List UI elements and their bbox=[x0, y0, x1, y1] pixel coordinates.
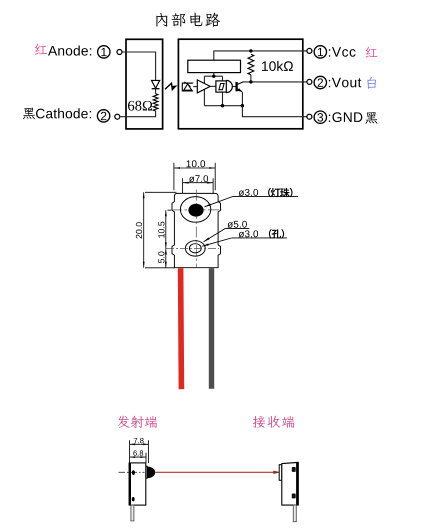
label dia3.0 hole bbox=[202, 238, 287, 246]
emitter lead hole top bbox=[132, 470, 135, 475]
node Anode label 红 bbox=[35, 44, 47, 55]
lamp circle dia7 bbox=[180, 197, 210, 223]
receiver hole top bbox=[292, 467, 296, 472]
sensor body outline bbox=[172, 193, 221, 267]
hole inner circle dia3 bbox=[189, 244, 201, 253]
wire Vcc top rail bbox=[214, 51, 307, 60]
black lead wire bbox=[209, 268, 214, 389]
net label Vcc 红 bbox=[366, 47, 378, 58]
receiver pin bbox=[293, 505, 296, 522]
emitter lead hole bottom bbox=[132, 497, 135, 501]
dimension dia 7.0 bbox=[189, 175, 208, 182]
emitter dome ledge bbox=[146, 466, 147, 478]
dimension 10.5 bbox=[158, 222, 164, 238]
top rail amp bbox=[204, 75, 222, 77]
light beam red line bbox=[155, 471, 274, 473]
terminal cathode bbox=[115, 114, 120, 119]
schmitt trigger U2 bbox=[226, 80, 232, 92]
receiver window flange bbox=[279, 465, 282, 481]
hysteresis symbol bbox=[219, 84, 224, 90]
net label GND 黑 bbox=[365, 112, 377, 124]
emitter body thick left edge bbox=[129, 463, 131, 505]
net label Vout 白 bbox=[367, 77, 376, 89]
wire resistor to cathode bbox=[120, 111, 156, 117]
dimension 7.8 bbox=[134, 438, 144, 443]
pin 2 cathode circled number bbox=[97, 110, 109, 122]
label dia3.0 lamp bead bbox=[205, 197, 299, 207]
lamp bead dia3 bbox=[188, 204, 203, 217]
junction schmitt bottom bbox=[221, 104, 224, 107]
resistor R1 68 ohm bbox=[153, 94, 158, 111]
dimension 6.8 bbox=[133, 450, 143, 455]
pin 2 Vout bbox=[314, 76, 326, 88]
LED D1 bbox=[152, 80, 160, 88]
node Cathode text bbox=[36, 108, 91, 118]
receiver body thick right edge bbox=[296, 462, 299, 505]
schmitt supply vertical bbox=[222, 76, 224, 80]
transistor Q1 bbox=[235, 82, 237, 91]
wire LED to resistor bbox=[155, 89, 157, 94]
hole outer circle dia5 bbox=[185, 241, 205, 256]
centerline hole bbox=[166, 247, 219, 249]
centerline lamp horizontal bbox=[171, 209, 222, 211]
label dia5.0 bbox=[204, 228, 250, 241]
wire schmitt to base bbox=[232, 86, 236, 88]
emitter block outline bbox=[126, 39, 163, 129]
terminal Vcc bbox=[307, 48, 312, 53]
receiver body bbox=[282, 462, 298, 505]
dimension 10.0 bbox=[187, 160, 206, 167]
label emitter end 发射端 bbox=[118, 416, 157, 428]
emitter centerline bbox=[119, 471, 145, 473]
junction chip bottom bbox=[213, 73, 215, 77]
junction resistor top bbox=[249, 49, 252, 52]
op-amp A1 bbox=[197, 80, 210, 93]
light emission arrow bbox=[165, 83, 175, 90]
terminal GND bbox=[307, 114, 312, 119]
node Anode text bbox=[48, 45, 91, 55]
wire gnd bbox=[242, 106, 307, 117]
label receiver end 接收端 bbox=[253, 416, 294, 428]
chip block U1 bbox=[188, 60, 241, 72]
pin 1 anode circled number bbox=[98, 46, 110, 58]
dimension 20.0 bbox=[136, 222, 142, 238]
title: internal circuit 内部电路 bbox=[156, 13, 220, 27]
resistor R2 10k bbox=[248, 54, 254, 75]
photodiode PD1 bbox=[182, 83, 193, 91]
terminal Vout bbox=[307, 79, 312, 84]
detector block outline bbox=[178, 39, 302, 129]
dimension 5.0 bbox=[158, 252, 164, 264]
pin 1 Vcc bbox=[314, 46, 326, 58]
emitter body bbox=[129, 463, 146, 505]
red lead wire bbox=[178, 268, 184, 389]
wire anode to LED bbox=[122, 52, 156, 81]
wire Vout bbox=[243, 81, 307, 83]
centerline vertical bbox=[195, 190, 197, 268]
junction resistor bottom bbox=[249, 80, 252, 83]
terminal anode bbox=[117, 50, 122, 55]
bottom rail bbox=[204, 105, 242, 107]
emitter lamp dome bbox=[147, 467, 155, 479]
node Cathode label 黑 bbox=[23, 108, 35, 119]
wire photodiode to amp bbox=[193, 86, 197, 88]
supply rail left vertical bbox=[203, 76, 205, 106]
wire amp to schmitt bbox=[210, 85, 215, 87]
emitter pin bbox=[131, 505, 134, 521]
receiver hole bottom bbox=[292, 494, 296, 499]
pin 3 GND bbox=[314, 111, 326, 123]
wire emitter to gnd bbox=[241, 92, 243, 106]
